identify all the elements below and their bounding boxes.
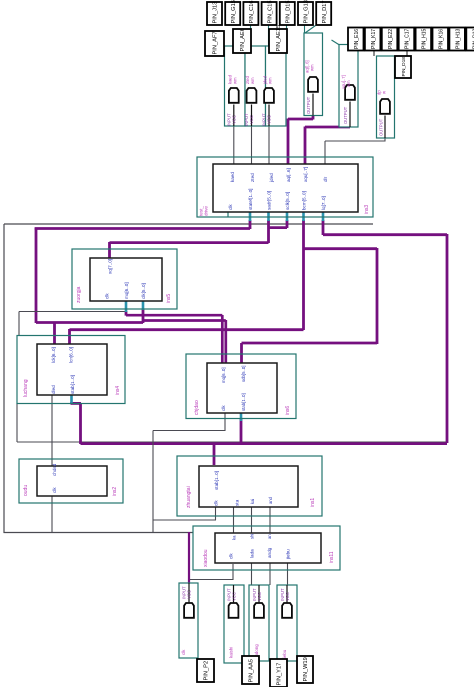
svg-text:luchang: luchang	[23, 379, 29, 397]
svg-text:PIN_W19: PIN_W19	[303, 657, 309, 681]
pin PIN_AE6	[233, 29, 251, 53]
svg-text:VCC: VCC	[257, 592, 262, 601]
wire zhuangtai to xiaodou b	[269, 506, 271, 533]
wire zhuangtai ka out	[233, 507, 235, 533]
svg-text:dlr: dlr	[323, 176, 328, 182]
enclosure bottom wire	[4, 532, 194, 534]
node clk5 stub	[142, 301, 145, 310]
io buffer cell dp	[377, 56, 395, 138]
io buffer cell kaishi	[224, 585, 244, 663]
svg-text:chjdao: chjdao	[194, 400, 200, 415]
node sclk stub	[286, 211, 289, 221]
svg-text:ka: ka	[232, 535, 237, 540]
wire right pin stub a	[373, 49, 375, 56]
svg-text:PIN_G13: PIN_G13	[304, 0, 310, 23]
pin PIN_C16	[243, 2, 258, 25]
pin PIN_D18	[395, 56, 411, 78]
pin PIN_AF7	[205, 31, 224, 56]
svg-text:PIN_E22: PIN_E22	[388, 29, 394, 49]
wire dp cell to dlr	[384, 137, 386, 142]
wire bus B1 branch to ins4	[53, 322, 56, 345]
wire bus zuorgja clk5	[142, 309, 145, 323]
svg-text:PIN_AE6: PIN_AE6	[240, 28, 246, 51]
svg-text:zhuangtai: zhuangtai	[186, 486, 192, 508]
pin PIN_AE15	[269, 29, 287, 53]
wire bus zuorgja mq	[125, 311, 128, 316]
wire gray zuorgja bottom	[18, 312, 20, 336]
wire cell2 to zted	[251, 126, 253, 164]
wire pin C16 stub	[250, 25, 252, 46]
pin PIN_K16	[433, 28, 449, 51]
wire xiaodou andong out	[269, 563, 271, 585]
svg-text:clk: clk	[214, 500, 219, 506]
wire bus sclk jog	[286, 220, 289, 228]
svg-text:zuorgja: zuorgja	[76, 286, 82, 303]
wire right pin stub b	[406, 49, 408, 56]
wire ins6 clk to enclosure	[224, 413, 226, 431]
svg-text:PIN_AA5: PIN_AA5	[249, 659, 255, 682]
pin PIN_H15	[416, 28, 432, 51]
svg-text:PIN_H13: PIN_H13	[455, 28, 461, 49]
svg-text:sclk[5..0]: sclk[5..0]	[285, 192, 290, 210]
svg-text:dled: dled	[51, 385, 56, 394]
module zhuangtai ins1	[177, 456, 322, 516]
node stab stub	[70, 395, 73, 403]
svg-text:sta: sta	[235, 499, 240, 506]
pin PIN_G13	[298, 2, 313, 25]
svg-text:statef[1..0]: statef[1..0]	[248, 189, 253, 210]
pin PIN_E16	[348, 28, 364, 51]
svg-text:mq[6..0]: mq[6..0]	[124, 282, 129, 299]
wire ins2 clk down	[51, 496, 53, 533]
node lq stub	[322, 211, 325, 221]
svg-text:drive: drive	[204, 206, 209, 216]
wire cell3 to jded	[268, 126, 270, 164]
svg-text:PIN_J13: PIN_J13	[213, 2, 219, 24]
wire bus B4 branch right	[304, 247, 378, 250]
node bcm stub	[302, 211, 305, 221]
svg-text:ins2: ins2	[112, 487, 118, 496]
svg-text:PIN_D18: PIN_D18	[401, 57, 407, 77]
pin PIN_J13	[207, 2, 222, 25]
svg-text:PIN_D17: PIN_D17	[322, 0, 328, 23]
io buffer cell clk	[179, 583, 198, 658]
pin PIN_K17	[365, 28, 381, 51]
module oudu ins2	[19, 459, 123, 503]
node ins6 out stub	[240, 412, 243, 421]
wire pin D17 diagonal	[305, 26, 316, 34]
svg-text:PIN_E16: PIN_E16	[354, 29, 360, 49]
svg-text:kaed: kaed	[230, 172, 235, 182]
wire cellC bus to aql	[312, 114, 315, 120]
svg-text:and: and	[268, 496, 273, 504]
svg-text:ins5: ins5	[166, 294, 172, 303]
svg-text:VCC: VCC	[285, 592, 290, 601]
pin PIN_E22	[382, 28, 398, 51]
pin PIN_H13	[449, 28, 465, 51]
svg-text:lck[6..0]: lck[6..0]	[51, 347, 56, 363]
wire cellD bus to xqu	[349, 124, 352, 128]
io buffer cell jiebu	[277, 585, 297, 661]
pin PIN_W19	[297, 656, 313, 683]
svg-text:kai: kai	[250, 499, 255, 504]
io buffer cell andong	[249, 585, 269, 661]
wire bus B1 statef	[249, 220, 252, 229]
svg-text:an: an	[267, 534, 272, 539]
svg-text:ins6: ins6	[285, 406, 291, 415]
wire branch zhuangtai clk	[153, 519, 216, 521]
wire bus B4 bcm	[302, 220, 305, 330]
svg-text:shi: shi	[250, 534, 255, 539]
svg-text:xqu[..7]: xqu[..7]	[303, 167, 308, 182]
svg-text:sadr[5..0]: sadr[5..0]	[267, 191, 272, 210]
svg-text:lcn[6..0]: lcn[6..0]	[69, 347, 74, 363]
svg-text:PIN_K16: PIN_K16	[438, 29, 444, 49]
svg-text:VCC: VCC	[267, 115, 272, 124]
io buffer cell zted	[245, 46, 266, 126]
svg-text:VCC: VCC	[232, 115, 237, 124]
svg-text:lada: lada	[250, 549, 255, 558]
pin PIN_C17	[399, 28, 415, 51]
svg-text:clk[5..0]: clk[5..0]	[141, 283, 146, 299]
svg-text:jiebu: jiebu	[286, 549, 291, 560]
svg-text:OUTPUT: OUTPUT	[306, 96, 311, 114]
svg-text:bcm[5..0]: bcm[5..0]	[302, 191, 307, 210]
svg-text:PIN_C17: PIN_C17	[405, 28, 411, 49]
svg-text:kaishi: kaishi	[229, 647, 234, 658]
svg-text:mq[6..0]: mq[6..0]	[221, 367, 226, 383]
svg-text:wm: wm	[250, 77, 255, 84]
svg-text:wm: wm	[346, 80, 351, 87]
wire pin G13 stub	[304, 25, 306, 33]
node mq stub	[125, 301, 128, 312]
svg-text:OUTPUT: OUTPUT	[343, 106, 348, 124]
svg-text:zted: zted	[250, 173, 255, 182]
svg-text:xiaodou: xiaodou	[203, 549, 209, 567]
enclosure top wire	[4, 223, 373, 225]
svg-text:ins11: ins11	[329, 551, 335, 563]
wire zhuangtai to xiaodou a	[251, 506, 253, 533]
svg-text:VCC: VCC	[232, 592, 237, 601]
svg-text:ins4: ins4	[115, 386, 121, 395]
svg-text:stab[1..0]: stab[1..0]	[241, 393, 246, 411]
module luchang ins4	[17, 336, 125, 404]
svg-text:PIN_G15: PIN_G15	[231, 0, 237, 23]
svg-text:clk: clk	[229, 553, 234, 559]
svg-text:OUTPUT: OUTPUT	[379, 118, 384, 136]
svg-text:wm: wm	[233, 77, 238, 84]
wire bus ins4 stab down	[70, 402, 73, 404]
svg-text:VCC: VCC	[187, 590, 192, 599]
module zuorgja ins5	[72, 249, 177, 309]
wire xiaodou jiebu out	[287, 563, 289, 585]
svg-text:PIN_K17: PIN_K17	[371, 29, 377, 49]
pin PIN_C15	[262, 2, 277, 25]
wire xiaodou lada out	[251, 563, 253, 585]
node statef stub	[249, 211, 252, 221]
svg-text:stab[1..0]: stab[1..0]	[70, 375, 75, 394]
svg-text:jded: jded	[269, 173, 274, 183]
wire gray y440	[16, 403, 18, 442]
pin PIN_Y17	[270, 659, 287, 687]
wire bus ins6 bottom	[240, 419, 243, 444]
svg-text:clk: clk	[181, 649, 186, 655]
svg-text:wm: wm	[268, 77, 273, 84]
svg-text:PIN_H15: PIN_H15	[422, 28, 428, 49]
pin PIN_G15	[225, 2, 240, 25]
wire bus y443 to zhuangtai	[81, 442, 448, 445]
svg-text:PIN_C16: PIN_C16	[249, 0, 255, 23]
svg-text:sdb[5..0]: sdb[5..0]	[241, 366, 246, 382]
pin PIN_AA5	[242, 656, 259, 684]
module chjdao ins6	[186, 354, 296, 419]
wire bus B2 sadr to zuorgja	[267, 220, 270, 243]
svg-text:stab[1..0]: stab[1..0]	[214, 471, 219, 490]
svg-text:PIN_AE15: PIN_AE15	[276, 25, 282, 52]
wire pin D15 stub	[286, 25, 288, 46]
svg-text:ins3: ins3	[364, 205, 370, 214]
svg-text:chdsd: chdsd	[52, 463, 57, 476]
wire cellD diagonal	[332, 40, 340, 45]
wire pin C15 stub	[268, 25, 270, 46]
module xiaodou ins11	[193, 526, 340, 570]
svg-text:PIN_Y17: PIN_Y17	[277, 663, 283, 686]
svg-text:PIN_P2: PIN_P2	[204, 661, 210, 681]
io buffer cell xqu	[339, 45, 358, 128]
svg-text:oudu: oudu	[23, 485, 29, 496]
wire test_drive clk stub	[227, 212, 229, 217]
io buffer cell aql	[304, 33, 323, 116]
svg-text:PIN_AF7: PIN_AF7	[213, 31, 219, 54]
svg-text:clk: clk	[52, 487, 57, 493]
module test_drive ins3	[197, 157, 373, 217]
pin PIN_P2	[197, 659, 214, 682]
svg-text:PIN_C15: PIN_C15	[267, 0, 273, 23]
svg-text:ins1: ins1	[310, 498, 316, 507]
svg-text:clk: clk	[228, 204, 233, 210]
svg-text:PIN_D15: PIN_D15	[286, 0, 292, 23]
svg-text:clk: clk	[221, 405, 226, 411]
node sadr stub	[267, 211, 270, 221]
io buffer cell kaed	[225, 46, 246, 126]
io buffer cell jded	[266, 46, 287, 126]
svg-text:aql[..6]: aql[..6]	[286, 168, 291, 182]
wire cell1 to kaed	[233, 126, 235, 164]
svg-text:andg: andg	[267, 547, 272, 558]
svg-text:xq[7..0]: xq[7..0]	[108, 259, 113, 274]
pin PIN_D15	[280, 2, 295, 25]
svg-text:wm: wm	[310, 64, 315, 71]
wire dled to ins2	[51, 395, 53, 466]
svg-text:clk: clk	[105, 293, 110, 299]
wire bus B5 lq	[322, 220, 325, 235]
pin PIN_D13	[466, 28, 474, 51]
wire xiaodou clk elbow	[232, 564, 234, 580]
wire clk drop to cell	[188, 532, 190, 603]
svg-text:VCC: VCC	[249, 115, 254, 124]
svg-text:lq[7..0]: lq[7..0]	[321, 196, 326, 210]
enclosure net left	[3, 224, 5, 533]
pin PIN_D17	[316, 2, 331, 25]
